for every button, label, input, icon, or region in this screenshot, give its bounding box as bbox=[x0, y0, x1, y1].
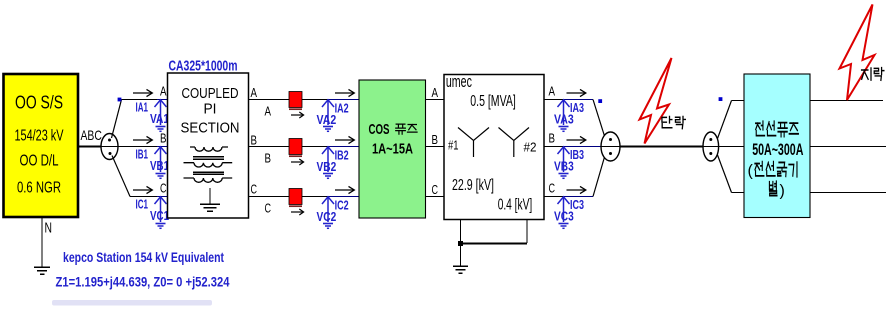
svg-text:0.5 [MVA]: 0.5 [MVA] bbox=[470, 93, 516, 110]
svg-text:VB2: VB2 bbox=[317, 159, 337, 174]
svg-text:C: C bbox=[160, 182, 167, 196]
svg-text:22.9 [kV]: 22.9 [kV] bbox=[452, 177, 494, 194]
svg-text:VB1: VB1 bbox=[150, 158, 169, 173]
svg-text:OO D/L: OO D/L bbox=[20, 153, 59, 170]
svg-text:(: ( bbox=[748, 163, 754, 180]
svg-text:1A~15A: 1A~15A bbox=[372, 142, 413, 158]
svg-text:COUPLED: COUPLED bbox=[182, 86, 239, 102]
svg-text:N: N bbox=[45, 220, 53, 237]
svg-text:50A~300A: 50A~300A bbox=[752, 140, 803, 159]
svg-text:#2: #2 bbox=[524, 140, 537, 155]
svg-text:VB3: VB3 bbox=[554, 159, 574, 174]
svg-text:VC3: VC3 bbox=[554, 209, 574, 224]
svg-text:#1: #1 bbox=[448, 138, 459, 153]
svg-text:C: C bbox=[251, 183, 258, 197]
svg-text:154/23 kV: 154/23 kV bbox=[15, 128, 64, 145]
svg-text:A: A bbox=[251, 86, 258, 100]
svg-text:VA3: VA3 bbox=[554, 112, 574, 127]
svg-text:A: A bbox=[160, 85, 167, 99]
svg-text:B: B bbox=[160, 132, 167, 146]
svg-text:A: A bbox=[432, 86, 439, 100]
svg-text:IA1: IA1 bbox=[136, 100, 149, 115]
svg-text:ABC: ABC bbox=[81, 127, 102, 143]
svg-text:IC2: IC2 bbox=[335, 198, 349, 213]
svg-text:Z1=1.195+j44.639, Z0= 0 +j52.3: Z1=1.195+j44.639, Z0= 0 +j52.324 bbox=[56, 274, 230, 290]
svg-text:kepco Station 154 kV Equivalen: kepco Station 154 kV Equivalent bbox=[63, 250, 224, 265]
svg-text:PI: PI bbox=[204, 102, 217, 118]
svg-text:IC1: IC1 bbox=[136, 197, 149, 212]
svg-text:umec: umec bbox=[446, 72, 472, 91]
svg-text:COS: COS bbox=[369, 121, 390, 138]
svg-text:CA325*1000m: CA325*1000m bbox=[169, 59, 238, 75]
svg-text:B: B bbox=[265, 152, 272, 166]
svg-text:SECTION: SECTION bbox=[181, 120, 240, 136]
svg-text:VA2: VA2 bbox=[317, 112, 337, 127]
svg-text:VC2: VC2 bbox=[317, 209, 337, 224]
svg-text:OO S/S: OO S/S bbox=[15, 92, 63, 113]
svg-text:C: C bbox=[549, 182, 556, 196]
svg-text:C: C bbox=[265, 202, 272, 216]
svg-text:IB2: IB2 bbox=[335, 148, 349, 163]
svg-text:VC1: VC1 bbox=[150, 208, 169, 223]
svg-text:): ) bbox=[780, 183, 785, 200]
svg-text:A: A bbox=[265, 105, 272, 119]
svg-text:IA2: IA2 bbox=[335, 101, 349, 116]
svg-text:0.4 [kV]: 0.4 [kV] bbox=[498, 197, 533, 214]
svg-text:VA1: VA1 bbox=[150, 111, 169, 126]
svg-text:B: B bbox=[251, 134, 258, 148]
svg-text:A: A bbox=[549, 85, 556, 99]
svg-text:IB1: IB1 bbox=[136, 147, 149, 162]
svg-text:C: C bbox=[432, 183, 439, 197]
svg-text:B: B bbox=[432, 133, 439, 147]
svg-text:0.6 NGR: 0.6 NGR bbox=[17, 180, 61, 197]
svg-text:B: B bbox=[549, 132, 556, 146]
